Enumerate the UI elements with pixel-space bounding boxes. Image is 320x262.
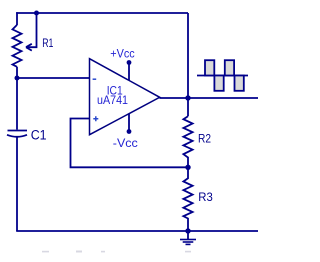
svg-text:R3: R3 [198,190,213,204]
svg-text:R2: R2 [198,131,211,145]
svg-text:C1: C1 [31,127,47,142]
svg-text:R1: R1 [42,36,53,50]
svg-text:-Vcc: -Vcc [113,136,138,150]
svg-text:uA741: uA741 [97,93,128,107]
svg-text:+Vcc: +Vcc [110,47,134,61]
